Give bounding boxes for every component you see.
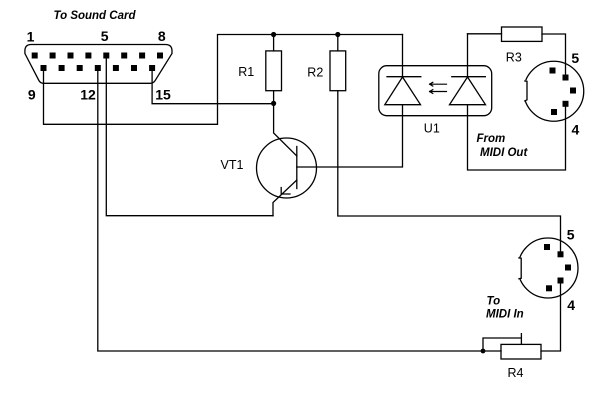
- svg-text:4: 4: [567, 297, 575, 313]
- svg-text:12: 12: [80, 87, 96, 103]
- svg-text:8: 8: [158, 28, 166, 44]
- pins game-port top row: [32, 53, 38, 59]
- svg-text:U1: U1: [424, 122, 440, 136]
- svg-text:R3: R3: [506, 51, 522, 65]
- diode left of U1: [402, 35, 404, 77]
- svg-text:R4: R4: [508, 366, 524, 380]
- wire base to U1: [297, 105, 403, 167]
- resistor R1: [273, 35, 275, 51]
- svg-text:9: 9: [28, 87, 36, 103]
- node R1 bottom: [271, 101, 276, 106]
- svg-text:To Sound Card: To Sound Card: [54, 10, 137, 22]
- wire pin15 to R1 bottom: [152, 71, 274, 104]
- notch MIDI-Out: [516, 80, 526, 101]
- pins game-port bottom row: [41, 65, 47, 71]
- pins MIDI-Out: [550, 68, 556, 74]
- node R2 top: [335, 32, 340, 37]
- wire emitter: [273, 180, 297, 216]
- svg-text:5: 5: [571, 50, 579, 66]
- optocoupler U1: [379, 66, 492, 116]
- svg-text:From: From: [477, 133, 506, 145]
- svg-text:5: 5: [567, 227, 575, 243]
- transistor VT1: [257, 138, 317, 198]
- node R4 tap: [481, 349, 486, 354]
- wire pin9 loop to top rail: [44, 35, 403, 125]
- svg-text:15: 15: [155, 87, 171, 103]
- wire pin12 to R4: [98, 71, 501, 351]
- connector J1 game-port outline: [25, 45, 172, 84]
- svg-text:To: To: [487, 296, 501, 308]
- svg-text:1: 1: [27, 29, 35, 45]
- wire collector: [274, 103, 297, 156]
- wire U1 right to MIDI-Out pin4: [468, 105, 566, 170]
- connector MIDI-In DIN: [518, 238, 578, 298]
- node R1 top: [271, 32, 276, 37]
- svg-text:MIDI In: MIDI In: [486, 309, 524, 321]
- svg-text:MIDI Out: MIDI Out: [480, 147, 528, 159]
- svg-text:VT1: VT1: [221, 158, 244, 172]
- svg-text:5: 5: [101, 28, 109, 44]
- wire R2 to MIDI-In pin5: [338, 91, 561, 252]
- wire R3 to MIDI-Out pin5: [542, 34, 566, 75]
- wire pin5 to VT1 emitter: [106, 58, 273, 216]
- resistor R3: [468, 33, 502, 35]
- connector MIDI-Out DIN: [524, 61, 584, 121]
- resistor R2: [337, 35, 339, 51]
- svg-text:R1: R1: [238, 65, 254, 79]
- wire R4 tap: [483, 334, 521, 351]
- svg-text:4: 4: [572, 122, 580, 138]
- notch MIDI-In: [511, 257, 521, 278]
- pins MIDI-In: [544, 244, 550, 250]
- resistor R4: [501, 344, 541, 359]
- svg-text:R2: R2: [307, 66, 323, 80]
- diode right of U1: [467, 34, 469, 77]
- wire MIDI-In pin4 to R4: [541, 284, 561, 352]
- arrows inside U1: [430, 82, 447, 86]
